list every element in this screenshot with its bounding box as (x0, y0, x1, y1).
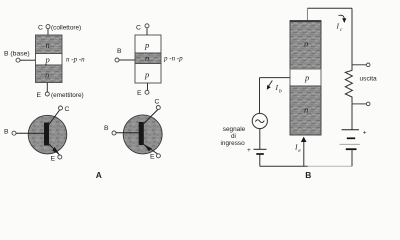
label segnale di ingresso (221, 126, 246, 147)
wire p block to E (147, 83, 149, 90)
svg-text:p: p (45, 55, 50, 65)
svg-text:E: E (37, 92, 42, 99)
pnp symbol Q2: collector lead (144, 110, 158, 124)
wire B to p block (20, 59, 36, 61)
svg-text:p: p (144, 40, 149, 50)
svg-text:ingresso: ingresso (221, 140, 246, 147)
svg-text:e: e (298, 148, 301, 154)
base terminal B with label (4, 51, 30, 63)
svg-text:E: E (137, 90, 142, 97)
label Ie (294, 143, 301, 155)
pnp structure T2: p collector block (135, 35, 161, 53)
label Ic (336, 22, 344, 34)
svg-text:C: C (38, 25, 43, 32)
right branch: wire from rail to resistor (351, 8, 353, 68)
npn symbol Q1: emitter lead with outward arrow (49, 144, 60, 156)
svg-text:(emettitore): (emettitore) (51, 92, 84, 99)
svg-text:+: + (247, 147, 251, 154)
emitter wire with Ie arrow (301, 137, 307, 167)
wire battery to bottom rail (259, 154, 261, 166)
current arrow Ic (339, 15, 347, 23)
svg-text:B: B (305, 170, 311, 180)
npn structure T1: collector terminal C (38, 25, 81, 32)
svg-text:di: di (231, 133, 236, 140)
svg-text:p: p (304, 73, 309, 83)
svg-text:B: B (4, 129, 9, 136)
npn symbol Q1: base bar (44, 123, 49, 146)
emitter terminal E (137, 90, 149, 97)
AC source V1 (252, 113, 267, 128)
pnp symbol Q2: collector terminal C (155, 99, 161, 110)
npn structure T1: n emitter block (36, 65, 63, 83)
npn symbol Q1: emitter terminal E (51, 155, 62, 163)
svg-text:b: b (279, 89, 282, 95)
collector wire to structure top (306, 8, 308, 21)
base terminal B (115, 48, 122, 62)
svg-text:C: C (136, 25, 141, 32)
top rail wire (307, 7, 352, 9)
svg-text:n -p -n: n -p -n (66, 56, 85, 64)
svg-text:C: C (155, 99, 160, 106)
input vertical wire (259, 78, 261, 114)
power transistor structure: n emitter region (290, 86, 321, 135)
svg-text:p: p (144, 70, 149, 80)
bottom rail wire (260, 165, 352, 167)
svg-text:B: B (104, 125, 109, 132)
svg-text:n: n (304, 105, 308, 115)
npn structure T1: n collector block (36, 35, 63, 54)
svg-text:I: I (336, 22, 340, 31)
battery B2 (collector supply) (340, 130, 367, 150)
svg-text:C: C (65, 106, 70, 113)
battery B1 (input bias) (247, 147, 267, 154)
svg-text:+: + (363, 130, 367, 137)
svg-text:B: B (117, 48, 122, 55)
svg-text:p -n -p: p -n -p (163, 55, 183, 63)
emitter terminal E (37, 92, 84, 99)
svg-text:n: n (304, 39, 308, 49)
pnp symbol Q2: base terminal B (104, 125, 116, 135)
pnp symbol Q2: emitter lead with inward arrow (144, 145, 158, 155)
wire C to n block (47, 29, 49, 35)
npn symbol Q1: base terminal B (4, 129, 16, 136)
svg-text:c: c (340, 27, 343, 33)
npn structure T1: p base block (36, 54, 63, 66)
wire battery B2 to bottom rail (351, 149, 353, 166)
npn symbol Q1: collector lead (49, 110, 61, 126)
svg-text:I: I (275, 83, 279, 92)
svg-text:E: E (150, 154, 155, 161)
wire B to n block (119, 59, 135, 61)
svg-text:segnale: segnale (223, 126, 246, 133)
wire n block to E (46, 83, 48, 93)
wire C to p block (146, 28, 148, 35)
power transistor structure: p base region (290, 69, 321, 86)
pnp symbol Q2: emitter terminal E (150, 154, 160, 161)
resistor R1 (load) (345, 68, 352, 100)
pnp structure T2: collector terminal C (136, 24, 149, 32)
current arrow Ib (267, 81, 273, 90)
npn symbol Q1: collector terminal C (59, 106, 70, 113)
output terminal stub bottom (352, 102, 370, 106)
svg-text:A: A (96, 170, 102, 180)
svg-text:uscita: uscita (360, 75, 378, 82)
wire AC source to battery (259, 129, 261, 150)
output terminal stub top (352, 63, 370, 67)
npn symbol Q1: base wire (16, 132, 44, 134)
wire to battery B2 (351, 104, 353, 130)
svg-text:(collettore): (collettore) (51, 25, 81, 32)
npn symbol Q1: body (28, 115, 67, 154)
svg-text:n: n (145, 53, 149, 63)
pnp symbol Q2: base wire (116, 132, 139, 134)
pnp symbol Q2: body (123, 115, 162, 154)
pnp structure T2: p emitter block (135, 64, 161, 84)
pnp structure T2: n base block (135, 53, 161, 64)
svg-text:B (base): B (base) (4, 51, 30, 58)
wire resistor to bottom stub (351, 100, 353, 104)
power transistor structure: n collector region (290, 21, 322, 69)
svg-text:E: E (51, 156, 56, 163)
svg-text:n: n (46, 40, 50, 50)
svg-text:n: n (45, 70, 49, 80)
base wire (260, 77, 291, 79)
label Ib (275, 83, 283, 95)
pnp symbol Q2: base bar (139, 122, 144, 145)
